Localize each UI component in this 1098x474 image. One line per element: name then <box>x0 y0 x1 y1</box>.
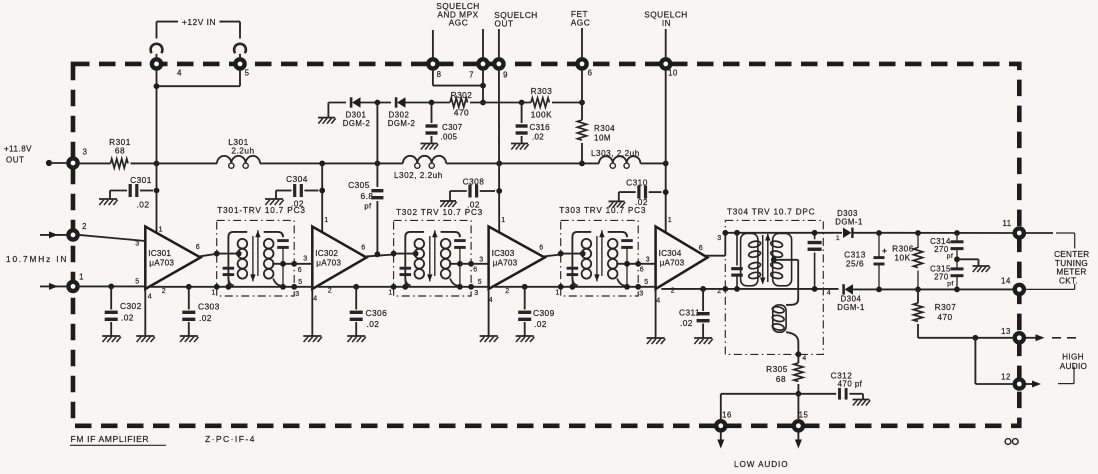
connector pin 12 (right edge) <box>1015 379 1024 388</box>
capacitor C305 <box>371 191 383 198</box>
wire pin 5 down <box>239 70 241 87</box>
label C315 270 pf <box>930 265 954 288</box>
label T301 out 3-6 <box>298 256 308 275</box>
label R304 10M <box>594 124 615 143</box>
svg-text:1: 1 <box>159 227 163 234</box>
svg-text:3: 3 <box>646 257 650 264</box>
node T304 center tap <box>771 257 777 263</box>
node T302 bottom cap <box>402 284 408 290</box>
node C304 <box>319 188 325 194</box>
svg-text:8: 8 <box>437 70 442 79</box>
svg-text:1: 1 <box>324 217 328 224</box>
svg-text:6: 6 <box>588 69 593 78</box>
pin number label 8 <box>437 70 442 79</box>
wire pin 8 tie <box>433 70 483 86</box>
svg-text:μA703: μA703 <box>660 259 685 268</box>
diode D301 <box>351 97 360 107</box>
pin number label 4 <box>177 69 182 78</box>
wire T301 secondary tap out <box>272 263 294 265</box>
connector pin 16 (bottom edge) <box>716 421 725 430</box>
svg-text:9: 9 <box>503 71 508 80</box>
capacitor C313 (electrolytic) <box>874 233 888 289</box>
diode D302 <box>396 97 405 107</box>
svg-text:3: 3 <box>474 290 478 297</box>
node rail/C305 <box>375 161 381 167</box>
node D301/D302/C305 <box>375 100 381 106</box>
wire mid to ground <box>957 259 979 266</box>
label C310 .02 <box>626 178 648 208</box>
svg-text:4: 4 <box>313 296 317 303</box>
node rail/IC304 pin1 <box>663 161 669 167</box>
label T304 pin 3 <box>717 235 721 242</box>
wire to R304 <box>581 103 583 121</box>
node C313 top <box>876 230 882 236</box>
wire pin 16 out <box>717 433 724 449</box>
svg-text:.02: .02 <box>199 313 212 323</box>
svg-text:6: 6 <box>298 267 302 274</box>
IC pin digit 4 <box>489 297 493 304</box>
ground D301 <box>318 118 336 124</box>
svg-text:6: 6 <box>640 267 644 274</box>
svg-text:+11.8V: +11.8V <box>4 145 32 154</box>
inductor T303 secondary winding <box>608 232 627 286</box>
svg-text:100K: 100K <box>531 110 552 120</box>
svg-text:6: 6 <box>539 245 543 252</box>
IC pin digit 1 <box>159 227 163 234</box>
svg-text:.02: .02 <box>121 313 134 323</box>
node rail/IC303 pin1 <box>496 161 502 167</box>
inductor L303 <box>599 156 640 168</box>
svg-text:3: 3 <box>639 291 643 298</box>
node T302 bottom left <box>391 284 397 290</box>
wire pin 11 bracket <box>1025 233 1074 289</box>
node T304 top left <box>722 230 728 236</box>
enclosure dashed border (printed-circuit board outline) <box>73 64 1019 426</box>
wire IC303 pin4 to ground <box>488 289 490 336</box>
node C310 <box>663 189 669 195</box>
node T303 bottom box edge <box>635 284 641 290</box>
node T303 primary coil tap <box>580 251 586 257</box>
svg-text:μA703: μA703 <box>316 259 341 268</box>
svg-text:+12V IN: +12V IN <box>182 17 216 27</box>
wire T304 top rail <box>725 232 842 234</box>
connector pin 15 (bottom edge) <box>794 421 803 430</box>
IC pin digit 6 <box>196 244 200 251</box>
IC pin digit 6 <box>640 267 644 274</box>
pin number label 7 <box>469 71 474 80</box>
connector pin 10 (top edge) <box>661 59 670 68</box>
capacitor T302 primary resonating <box>400 257 412 287</box>
ground C308 <box>440 201 457 207</box>
svg-text:1: 1 <box>388 290 392 297</box>
pin number label 1 <box>79 273 84 282</box>
svg-text:METER: METER <box>1056 268 1086 277</box>
label R305 68 <box>766 364 788 384</box>
svg-text:5: 5 <box>245 69 250 78</box>
wire R304 to rail <box>581 143 583 163</box>
connector pin 2 (left edge) <box>68 230 77 239</box>
wire R306 bottom / R307 top <box>917 289 919 303</box>
ground C312 <box>853 400 871 406</box>
wire pin 6 down <box>581 70 583 103</box>
ground C303 <box>180 336 199 342</box>
svg-text:5: 5 <box>478 279 482 286</box>
node T303 tap/cap <box>624 261 630 267</box>
connector pin 8 (top edge) <box>428 59 437 68</box>
svg-text:.005: .005 <box>441 133 458 142</box>
op-amp IC304 <box>656 227 708 290</box>
svg-text:C303: C303 <box>198 302 220 312</box>
label LOW AUDIO <box>734 460 789 469</box>
label CENTER TUNING METER CKT <box>1054 250 1089 285</box>
ground C302 <box>102 336 121 342</box>
label T304 tap pin <box>802 355 806 362</box>
svg-text:1: 1 <box>836 235 840 242</box>
FET AGC label <box>571 9 590 27</box>
capacitor T303 secondary resonating <box>621 234 633 287</box>
node T304 primary cap top <box>734 230 740 236</box>
node T303 tap box edge <box>635 261 641 267</box>
node T302 input <box>391 251 397 257</box>
wire IC301 pin4 to ground <box>144 289 146 336</box>
wire C305 vertical <box>376 103 378 255</box>
resistor R304 <box>577 120 586 140</box>
svg-text:IC301: IC301 <box>148 249 171 258</box>
svg-text:μA703: μA703 <box>149 259 174 268</box>
label D302 DGM-2 <box>388 111 416 129</box>
op-amp IC301 <box>145 227 200 290</box>
terminal dot +11.8V OUT <box>46 160 52 166</box>
capacitor C309 <box>518 287 531 336</box>
svg-text:T304 TRV 10.7 DPC: T304 TRV 10.7 DPC <box>727 208 815 217</box>
pin number label 10 <box>668 69 678 78</box>
ground IC301 pin 4 <box>136 336 155 342</box>
ground IC302 pin 4 <box>303 336 322 342</box>
svg-text:pf: pf <box>947 280 954 287</box>
label HIGH AUDIO <box>1060 353 1087 372</box>
label FM IF AMPLIFIER <box>70 434 166 446</box>
IC pin digit 5 <box>135 279 139 286</box>
resistor R302 <box>450 98 468 107</box>
svg-text:4: 4 <box>489 297 493 304</box>
node T304 sec cap top <box>812 230 818 236</box>
pin number label 14 <box>1001 277 1011 286</box>
wire IC304 out to T304 <box>706 233 726 256</box>
node pin8 tie <box>480 83 486 89</box>
svg-text:C304: C304 <box>286 174 308 184</box>
label C312 470 pf <box>831 371 863 389</box>
svg-text:IC304: IC304 <box>659 249 682 258</box>
svg-text:FM IF AMPLIFIER: FM IF AMPLIFIER <box>71 434 150 444</box>
label R306 10K <box>892 244 914 263</box>
wire T303 secondary tap out <box>616 263 638 265</box>
wire T303 primary input <box>561 253 583 255</box>
svg-text:.02: .02 <box>367 319 380 329</box>
transformer T301 dashed box <box>217 220 295 296</box>
label C309 .02 <box>533 308 555 329</box>
inductor T304 primary winding <box>741 233 761 285</box>
label C314 270 pf <box>930 237 953 260</box>
label C305 6.8 pf <box>348 180 373 210</box>
resistor R303 <box>531 98 549 107</box>
svg-text:R304: R304 <box>594 124 615 133</box>
inductor T304 secondary winding <box>770 233 791 285</box>
capacitor T304 secondary <box>808 233 822 289</box>
label C304 .02 <box>286 174 308 209</box>
node T304 sec cap bottom <box>812 286 818 292</box>
svg-text:25/6: 25/6 <box>846 259 864 269</box>
IC pin digit 4 <box>656 298 660 305</box>
IC pin digit 5 <box>644 279 648 286</box>
IC pin digit 2 <box>505 288 509 295</box>
svg-text:C309: C309 <box>533 308 555 318</box>
label T303 pin 1 <box>555 290 559 297</box>
resistor R301 <box>111 159 129 168</box>
node T301 bottom sec cap <box>280 284 286 290</box>
svg-text:T303 TRV 10.7 PC3: T303 TRV 10.7 PC3 <box>559 206 646 215</box>
svg-text:1: 1 <box>211 290 215 297</box>
svg-text:2: 2 <box>162 288 166 295</box>
connector pin 11 (right edge) <box>1015 228 1024 237</box>
svg-text:Z·PC·IF-4: Z·PC·IF-4 <box>205 434 256 444</box>
connector pin 7 (top edge) <box>478 59 487 68</box>
node R306 bottom <box>915 287 921 293</box>
capacitor C306 <box>350 287 363 336</box>
wire R307 to pin 13 <box>918 324 1013 338</box>
ground C311 <box>694 338 713 344</box>
svg-text:T302 TRV 10.7 PC3: T302 TRV 10.7 PC3 <box>396 208 483 217</box>
wire R303 to pin6 line <box>552 102 582 104</box>
capacitor T301 primary resonating <box>223 257 235 287</box>
IC pin digit 2 <box>162 288 166 295</box>
svg-text:3: 3 <box>295 291 299 298</box>
SQUELCH OUT label <box>494 10 538 28</box>
wire L302 to L303 <box>446 162 599 164</box>
IC pin digit 3 <box>646 257 650 264</box>
wire L301 to L302 <box>260 162 403 164</box>
label L303 2.2uh <box>591 149 640 158</box>
svg-text:6: 6 <box>473 267 477 274</box>
svg-text:R305: R305 <box>766 364 788 374</box>
connector pin 13 (right edge) <box>1015 333 1024 342</box>
label C313 25/6 <box>844 250 866 269</box>
svg-text:1: 1 <box>555 290 559 297</box>
svg-text:R303: R303 <box>531 86 553 96</box>
wire IC302 out to T302 <box>365 255 394 257</box>
node T304 bottom left <box>722 286 728 292</box>
transformer T302 dashed box <box>394 220 472 296</box>
node R302/pin7 <box>480 100 486 106</box>
svg-text:HIGH: HIGH <box>1062 353 1084 362</box>
label T304 pin 1 <box>836 235 840 242</box>
svg-text:.02: .02 <box>532 133 544 142</box>
svg-text:13: 13 <box>1001 327 1011 336</box>
svg-text:.02: .02 <box>680 318 693 328</box>
svg-text:IN: IN <box>662 18 671 28</box>
resistor R306 <box>913 233 922 289</box>
connector pin 9 (top edge) <box>494 59 503 68</box>
connector pin 5 (top edge) <box>235 59 244 68</box>
svg-text:C301: C301 <box>130 175 152 185</box>
wire D304 to pin 14 <box>852 288 1013 290</box>
capacitor C307 <box>426 103 438 144</box>
wire T301 primary input <box>217 253 239 255</box>
svg-text:R302: R302 <box>451 90 473 100</box>
node C301 <box>154 188 160 194</box>
mark OO <box>1005 439 1018 445</box>
svg-text:1: 1 <box>79 273 84 282</box>
wire bottom rail stage4 <box>661 288 838 290</box>
IC pin digit 4 <box>313 296 317 303</box>
capacitor T303 primary resonating <box>567 257 579 287</box>
label R307 470 <box>935 302 957 322</box>
wire into pin 2 <box>40 231 67 238</box>
svg-text:6: 6 <box>699 245 703 252</box>
svg-text:C310: C310 <box>626 178 648 188</box>
svg-text:1: 1 <box>668 217 672 224</box>
label R301 68 <box>109 137 131 155</box>
svg-text:15: 15 <box>799 411 809 420</box>
node T302 tap/cap <box>457 261 463 267</box>
svg-text:470: 470 <box>454 108 469 118</box>
pin number label 2 <box>82 222 87 231</box>
svg-text:4: 4 <box>656 298 660 305</box>
svg-text:1: 1 <box>501 217 505 224</box>
pin number label 15 <box>799 411 809 420</box>
wire pin 8 pigtail <box>432 30 434 58</box>
label T304 <box>727 208 815 217</box>
pin number label 5 <box>245 69 250 78</box>
pin number label 12 <box>1001 373 1011 382</box>
wire IC304 pin4 to ground <box>655 289 657 338</box>
IC pin digit 1 <box>501 217 505 224</box>
label R303 100K <box>531 86 553 120</box>
+12V IN bracket wire <box>157 22 241 39</box>
node T301 tap/cap <box>280 261 286 267</box>
wire into pin 1 <box>40 283 67 290</box>
svg-text:C308: C308 <box>463 177 485 187</box>
svg-text:10K: 10K <box>894 253 910 263</box>
wire T302 primary input <box>394 253 416 255</box>
+12V IN label <box>182 17 216 27</box>
capacitor C303 <box>182 287 195 336</box>
svg-text:pf: pf <box>947 253 954 260</box>
ground C307 <box>421 144 439 150</box>
capacitor C308 <box>450 185 495 202</box>
resistor R305 <box>794 363 803 381</box>
label C311 .02 <box>679 308 700 329</box>
svg-text:C306: C306 <box>366 308 388 318</box>
node T301 primary coil tap <box>236 251 242 257</box>
pin number label 9 <box>503 71 508 80</box>
label T302 out 3-6 <box>473 257 483 274</box>
wire bottom rail stage1 <box>151 286 313 288</box>
node C313 bottom <box>876 287 882 293</box>
label D303 DGM-1 <box>835 209 863 227</box>
IC pin digit 5 <box>478 279 482 286</box>
svg-text:μA703: μA703 <box>493 259 518 268</box>
connector pin 3 (left edge) <box>68 158 77 167</box>
capacitor C304 <box>276 184 319 199</box>
wire pin 6 pigtail <box>581 28 583 58</box>
svg-text:DGM-2: DGM-2 <box>343 119 371 128</box>
label T302 pin 1 <box>388 290 392 297</box>
capacitor C301 <box>110 184 153 199</box>
svg-text:LOW AUDIO: LOW AUDIO <box>734 460 789 469</box>
label C302 .02 <box>120 301 142 323</box>
svg-text:T301-TRV 10.7 PC3: T301-TRV 10.7 PC3 <box>217 206 305 215</box>
svg-text:IC303: IC303 <box>492 249 515 258</box>
node T301 input <box>214 251 220 257</box>
ground IC303 pin 4 <box>480 336 499 342</box>
node pin13/pin12 tie <box>973 335 979 341</box>
wire node to pin 16 <box>721 394 799 421</box>
wire pin 15 out <box>795 433 802 449</box>
wire pin 10 to IC304 apex <box>665 70 667 233</box>
node T303 bottom left <box>558 284 564 290</box>
resistor R307 <box>913 303 922 321</box>
wire T302 secondary tap out <box>449 263 471 265</box>
ground C304 <box>265 199 284 205</box>
wire T301 tap to IC302 <box>294 263 312 265</box>
svg-text:3: 3 <box>135 241 139 248</box>
svg-text:10: 10 <box>668 69 678 78</box>
svg-text:CKT.: CKT. <box>1059 276 1078 285</box>
capacitor C312 <box>798 388 863 400</box>
wire pin 10 pigtail <box>665 29 667 58</box>
svg-text:5: 5 <box>298 279 302 286</box>
connector pin 4 (top edge) <box>152 59 161 68</box>
node R306 top <box>915 230 921 236</box>
node C302 <box>108 284 114 290</box>
wire tie to pin 12 <box>975 338 1013 384</box>
inductor L301 <box>217 156 260 168</box>
pin number label 11 <box>1002 219 1011 228</box>
capacitor C314 <box>951 233 964 259</box>
capacitor C316 <box>516 103 528 144</box>
label C306 .02 <box>366 308 388 329</box>
node T302 bottom box edge <box>468 284 474 290</box>
capacitor T301 secondary resonating <box>277 234 289 287</box>
inductor T304 tertiary (low audio) winding <box>772 305 786 332</box>
wire T303 tap to IC304 <box>638 263 655 265</box>
wire pin 7 down <box>482 70 484 103</box>
wire IC302 apex line <box>321 163 323 232</box>
wire main rail pin3 to R301 <box>79 162 111 164</box>
svg-text:4: 4 <box>177 69 182 78</box>
label T301 pin 1 <box>211 290 215 297</box>
op-amp IC303 <box>489 227 545 290</box>
label D304 DGM-1 <box>837 295 865 313</box>
node C309 <box>522 284 528 290</box>
node C314/C315 <box>954 256 960 262</box>
connector pin 1 (left edge) <box>68 282 77 291</box>
svg-text:12: 12 <box>1001 373 1011 382</box>
capacitor T302 secondary resonating <box>454 234 466 287</box>
wire +11.8V OUT to pin 3 <box>49 162 67 164</box>
wire center tap to R305 <box>797 354 799 363</box>
svg-text:C305: C305 <box>348 180 370 190</box>
svg-text:10.7MHz IN: 10.7MHz IN <box>6 254 68 264</box>
svg-text:OUT: OUT <box>494 18 513 28</box>
svg-text:3: 3 <box>479 257 483 264</box>
wire IC302 pin4 to ground <box>311 289 313 336</box>
node C311 <box>700 286 706 292</box>
inductor T303 primary winding <box>572 232 591 286</box>
tuning core T301 <box>250 230 260 281</box>
svg-text:DGM-1: DGM-1 <box>835 218 863 227</box>
capacitor C310 <box>619 186 662 202</box>
